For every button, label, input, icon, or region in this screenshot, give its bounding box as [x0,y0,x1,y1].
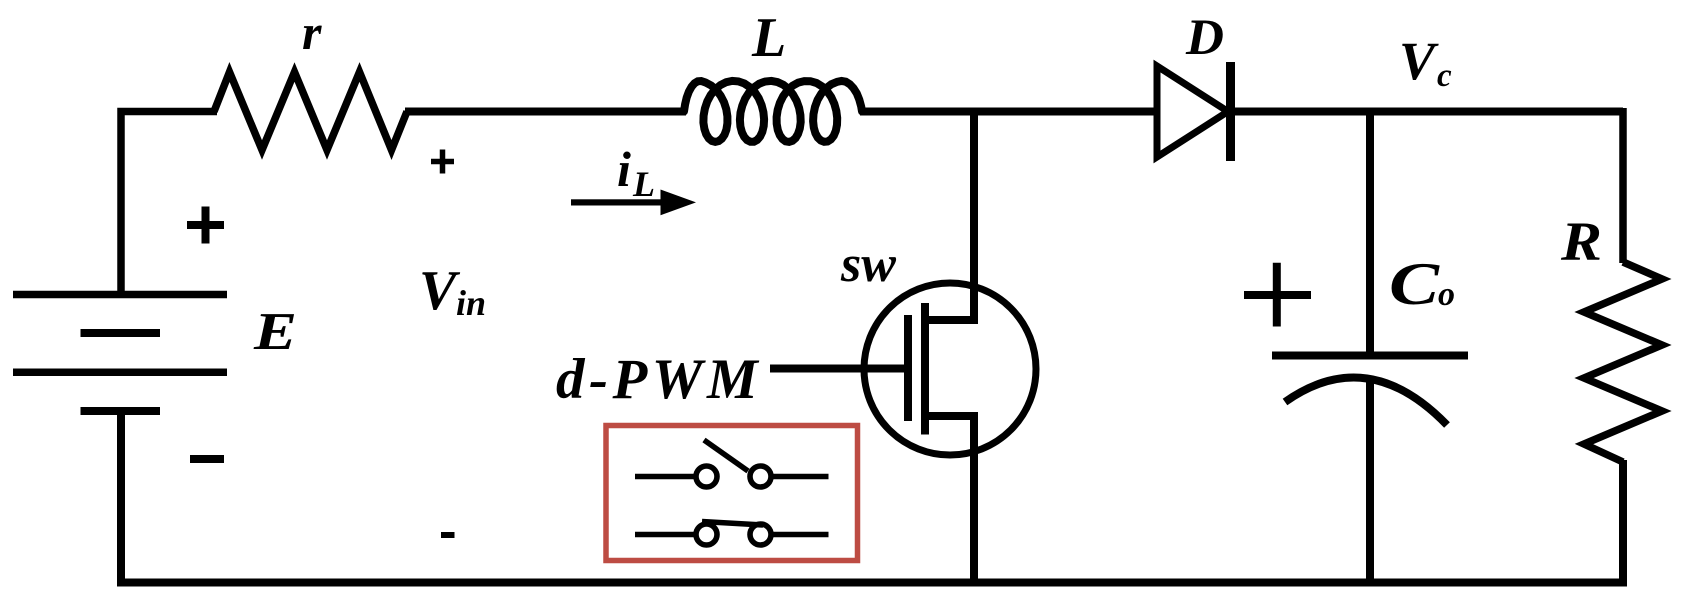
resistor R [1584,262,1662,462]
switch S1 (open) : left lead [635,474,694,480]
MOSFET sw : body circle [864,283,1036,455]
node -: polarity minus of Vin (bottom) [441,532,455,538]
svg-text:i: i [617,141,631,197]
capacitor Co : curved bottom plate [1285,378,1447,425]
svg-text:in: in [456,283,486,323]
MOSFET sw : gate bar [904,315,912,421]
switch S1 (open) : right contact circle [750,466,771,487]
wire: node Vc down to capacitor Co top plate [1366,108,1374,352]
wire: MOSFET source stub and down to bottom rail [925,416,974,584]
wire: right rail from Vc down to resistor R [1619,108,1627,263]
wire: battery negative terminal down to bottom rail [117,411,125,583]
wire: MOSFET drain stub and up to top node [925,108,974,320]
switch S2 (closed) : right contact circle [750,524,771,545]
svg-text:R: R [1560,211,1602,272]
wire: inductor L to diode D anode, junction with MOSFET drain [860,108,1157,116]
svg-text:V: V [419,260,461,322]
svg-text:r: r [302,4,322,60]
battery E plates [13,291,227,299]
red box: PWM switch states [606,426,858,561]
label + (capacitor polarity) [1244,263,1311,327]
label + (battery polarity) [187,207,224,244]
svg-text:D: D [1185,10,1224,66]
wire: resistor R bottom, bottom rail, and up to battery [121,415,1623,583]
inductor L [684,81,862,142]
svg-text:sw: sw [840,236,896,293]
switch S1 (open) : blade [704,440,748,471]
svg-text:V: V [1399,31,1439,91]
svg-text:o: o [1438,276,1455,313]
switch S1 (open) : left contact circle [696,466,717,487]
MOSFET sw : channel bar [921,303,929,435]
wire: resistor r to inductor L [405,108,686,116]
resistor r [214,72,407,150]
label - (battery polarity) [190,455,224,463]
switch S2 (closed) : left lead [635,532,694,538]
wire: battery positive terminal up and right to resistor r [121,112,217,295]
svg-text:c: c [1437,58,1452,94]
diode D [1157,66,1228,157]
switch S1 (open) : right lead [773,474,829,480]
svg-text:d-PWM: d-PWM [556,348,762,411]
wire: capacitor Co bottom to bottom rail [1366,378,1374,584]
node +: polarity plus of Vin (left) [431,150,454,174]
current arrow iL [571,190,696,216]
svg-text:E: E [253,303,297,361]
switch S2 (closed) : right lead [773,532,829,538]
svg-text:L: L [632,164,655,204]
wire: gate lead from d-PWM to MOSFET gate [770,365,904,373]
capacitor Co : top plate [1272,352,1468,360]
svg-text:L: L [751,7,786,69]
switch S2 (closed) : blade bar [702,522,763,526]
wire: diode D cathode to node Vc and right rail [1230,108,1623,116]
svg-text:C: C [1389,251,1440,317]
switch S2 (closed) : left contact circle [696,524,717,545]
